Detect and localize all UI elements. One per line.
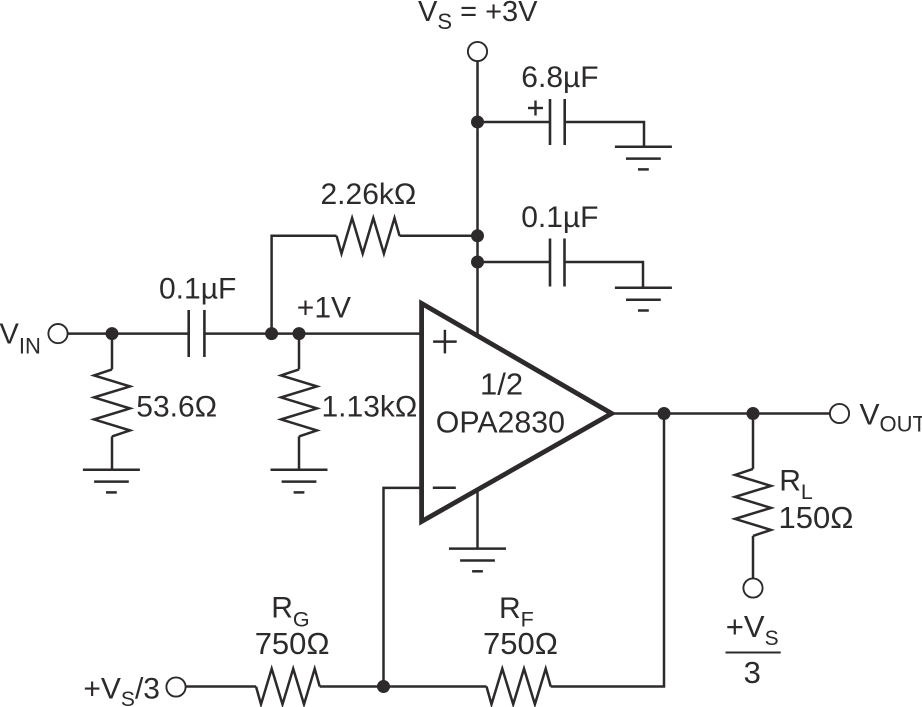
node junction output / feedback <box>658 407 671 420</box>
svg-text:VIN: VIN <box>0 318 41 358</box>
svg-text:VOUT: VOUT <box>860 399 922 437</box>
wire C 6.8uF to ground <box>565 122 644 147</box>
terminal VOUT (open circle) <box>830 404 849 423</box>
node junction supply to 6.8uF <box>471 116 484 129</box>
node junction output / RL <box>747 407 760 420</box>
wire 53.6 top lead <box>111 334 114 370</box>
wire 1.13k bottom lead <box>298 436 301 469</box>
wire op-amp output <box>612 412 830 415</box>
svg-text:0.1µF: 0.1µF <box>159 272 236 305</box>
svg-text:1.13kΩ: 1.13kΩ <box>322 391 418 424</box>
wire feedback node to RF <box>384 685 487 688</box>
resistor 1.13k zigzag <box>281 369 317 436</box>
wire +VS/3 to RG <box>186 685 256 688</box>
wire node A up to 2.26k <box>272 236 337 334</box>
resistor RF zigzag <box>487 669 551 705</box>
svg-text:150Ω: 150Ω <box>779 500 854 535</box>
svg-text:+1V: +1V <box>297 291 351 324</box>
resistor RL zigzag <box>735 469 771 536</box>
resistor RG zigzag <box>256 669 320 705</box>
ground of op-amp <box>449 547 506 550</box>
svg-text:6.8µF: 6.8µF <box>521 61 598 94</box>
svg-text:53.6Ω: 53.6Ω <box>136 391 217 424</box>
wire VIN to input cap <box>68 332 189 335</box>
wire supply node to C1 <box>478 121 551 124</box>
wire 53.6 bottom lead <box>111 436 114 469</box>
resistor 53.6 zigzag <box>94 369 130 436</box>
node junction supply to 2.26k <box>471 229 484 242</box>
polarity + of 6.8uF <box>528 107 543 109</box>
op-amp U1 triangle 1/2 OPA2830 <box>422 303 612 521</box>
capacitor C 6.8uF plates <box>549 99 552 145</box>
svg-text:+VS/3: +VS/3 <box>83 673 160 707</box>
op-amp + input symbol <box>433 340 457 343</box>
node junction feedback (RG/RF/inverting) <box>377 680 390 693</box>
wire feedback from output node down <box>551 414 664 687</box>
wire RL bottom lead <box>752 536 755 579</box>
svg-text:2.26kΩ: 2.26kΩ <box>321 178 417 211</box>
ground of 1.13k <box>271 468 328 471</box>
ground of 53.6 <box>83 468 140 471</box>
wire input cap to op-amp + input <box>204 332 421 335</box>
resistor 2.26k zigzag <box>337 218 400 254</box>
terminal RL bias (open circle) <box>743 578 762 597</box>
wire inverting input to feedback node <box>384 488 422 687</box>
terminal VIN (open circle) <box>48 324 67 343</box>
op-amp - input symbol <box>433 486 456 489</box>
wire op-amp V- stub to ground <box>476 489 479 549</box>
wire supply node to C2 <box>478 261 551 264</box>
wire C 0.1uF bypass to ground <box>565 262 644 288</box>
svg-text:1/2: 1/2 <box>480 367 523 402</box>
node junction VIN / 53.6 <box>106 327 119 340</box>
svg-text:+VS: +VS <box>726 609 779 650</box>
node B junction (1.13k tap) <box>293 327 306 340</box>
svg-text:RL: RL <box>779 465 813 504</box>
svg-text:750Ω: 750Ω <box>483 626 558 661</box>
wire RG to feedback node <box>320 685 384 688</box>
svg-text:750Ω: 750Ω <box>255 626 330 661</box>
ground of 6.8uF <box>615 145 672 148</box>
node junction supply to 0.1uF bypass <box>471 256 484 269</box>
svg-text:VS = +3V: VS = +3V <box>418 0 538 34</box>
wire 1.13k top lead <box>298 334 301 370</box>
ground of 0.1uF bypass <box>615 287 672 290</box>
svg-text:OPA2830: OPA2830 <box>436 406 565 439</box>
terminal +VS/3 (open circle) <box>166 677 185 696</box>
svg-text:0.1µF: 0.1µF <box>521 201 598 234</box>
wire supply rail vertical <box>476 61 479 334</box>
capacitor input 0.1uF plates <box>187 310 190 357</box>
node A junction (2.26k tap) <box>265 327 278 340</box>
wire 2.26k to supply node <box>400 235 478 238</box>
terminal VS (open circle) <box>468 42 487 61</box>
svg-text:3: 3 <box>744 655 761 690</box>
wire RL top lead <box>752 414 755 469</box>
capacitor C 0.1uF bypass plates <box>549 239 552 287</box>
